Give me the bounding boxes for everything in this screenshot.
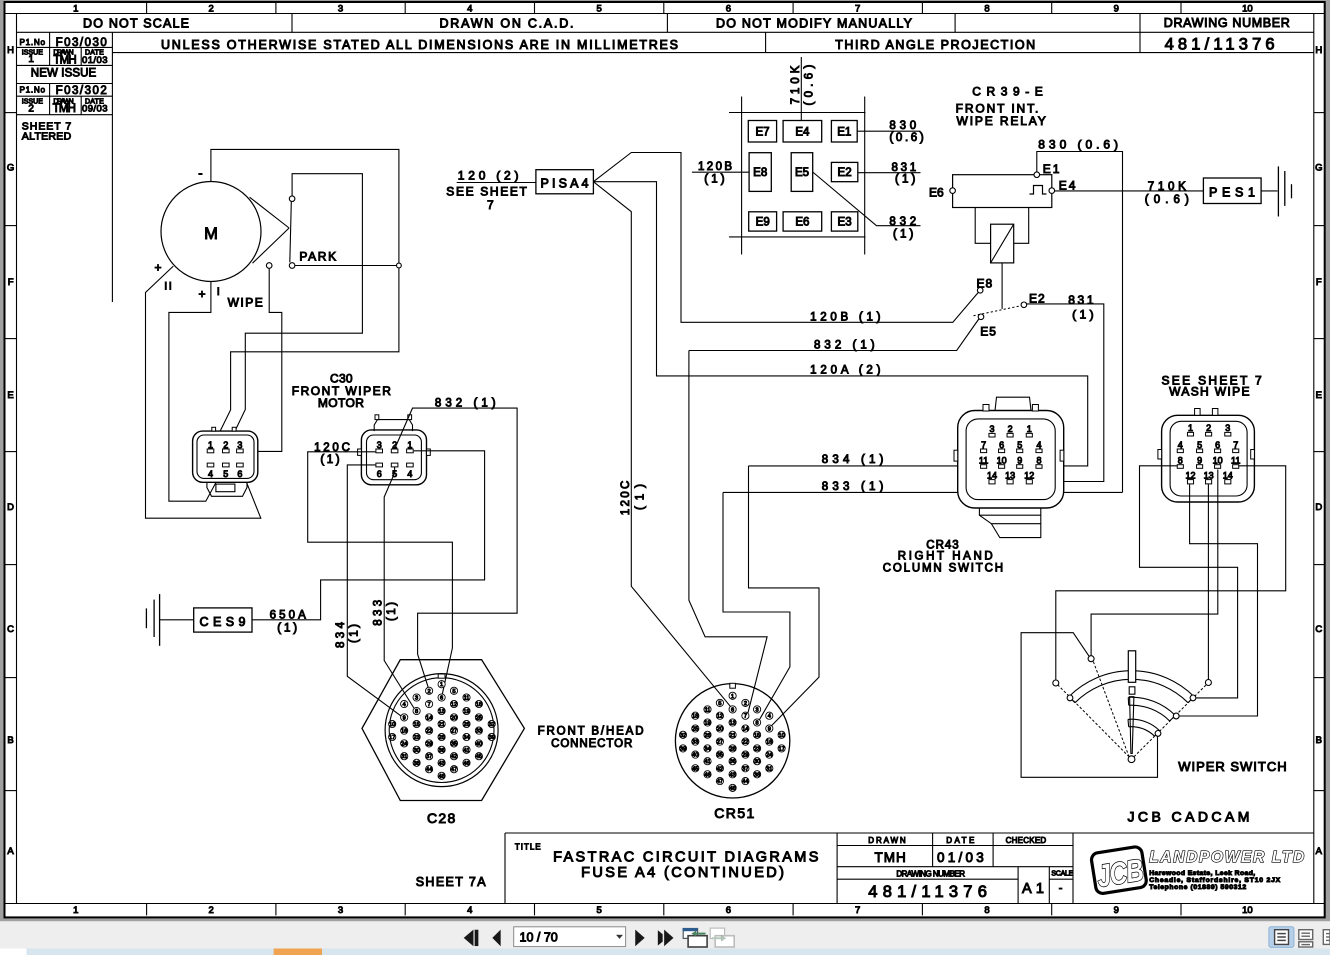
svg-text:1: 1 [73,4,78,15]
svg-text:32: 32 [489,722,495,728]
LANDPOWER LTD logo text [1149,849,1305,866]
svg-text:40: 40 [692,753,698,759]
label FRONT B/HEAD [538,725,644,737]
relay pulse symbol [1030,186,1047,195]
svg-text:10: 10 [1242,4,1253,15]
svg-text:32: 32 [680,733,686,739]
wire 832 from fuse E5 [813,172,921,226]
svg-text:10: 10 [778,733,784,739]
svg-text:36: 36 [729,759,735,765]
svg-text:35: 35 [451,741,457,747]
relay terminal E4 [1049,188,1055,194]
wiper switch middle arc end contact [1173,713,1179,719]
label SEE SHEET 7 [1162,373,1263,387]
toolbar continuous layout icon [1299,930,1313,947]
svg-text:3: 3 [237,440,242,450]
svg-text:E9: E9 [756,217,770,229]
svg-text:16: 16 [766,740,772,746]
label RIGHT HAND [898,550,993,562]
svg-text:33: 33 [692,740,698,746]
svg-text:ALTERED: ALTERED [22,130,72,142]
text 481/11376 title [868,883,987,901]
svg-text:22: 22 [742,740,748,746]
connector CR51 pin field 1-48 [679,692,785,792]
wire 833 C30B pin5 to C28 pin8 [384,467,414,708]
svg-text:6: 6 [1215,440,1220,450]
wire 833/830 bus to CR43 pin13 [723,484,1123,493]
wiper switch inner arc end contact [1155,731,1161,737]
connector CR43 backshell [979,508,1040,538]
wire PISA4 to 120C branch [593,182,730,707]
svg-text:E1: E1 [1043,162,1062,176]
wire park lower contact to junction [295,265,396,267]
label E6 [929,186,944,200]
wire WW pin8 to outer arc contact [1140,466,1238,698]
svg-text:(1): (1) [386,602,398,621]
svg-text:10: 10 [389,722,395,728]
svg-text:3: 3 [377,440,382,450]
svg-text:17: 17 [778,746,784,752]
svg-text:B: B [1316,735,1322,746]
wire 831 E2 to CR43 pin12 [1027,304,1104,482]
relay contact E2 [1021,302,1027,308]
svg-text:E5: E5 [980,325,997,339]
svg-text:11: 11 [979,456,988,466]
svg-text:9: 9 [1114,4,1119,15]
svg-text:10 / 70: 10 / 70 [520,931,558,945]
svg-text:E6: E6 [929,186,944,200]
svg-text:28: 28 [729,746,735,752]
JCB logo [1091,846,1148,894]
connector CR51 keyway [730,683,736,688]
svg-text:9: 9 [1197,456,1202,466]
label 834 (1) vertical [335,621,361,648]
toolbar page combobox [514,927,626,947]
relay coil leads [975,208,1028,244]
svg-text:Telephone (01889) 590312: Telephone (01889) 590312 [1149,884,1246,891]
wire wipe contact to C30A pin3 [244,269,282,452]
wire 834 to CR43 pin11 [749,465,981,467]
svg-text:7: 7 [855,905,860,916]
wire coil to armature [1001,263,1003,309]
wire 832 switch to E5 [689,319,979,351]
label MOTOR (C30) [318,396,364,410]
svg-text:6: 6 [377,469,382,479]
svg-text:DO NOT MODIFY MANUALLY: DO NOT MODIFY MANUALLY [716,17,913,31]
svg-text:(1): (1) [895,174,916,186]
svg-text:7: 7 [487,198,494,212]
label 832 (1) C30 [435,398,496,410]
svg-text:6: 6 [999,440,1004,450]
svg-text:E4: E4 [795,127,810,139]
svg-text:13: 13 [438,709,444,715]
label 710K vertical [790,65,816,106]
svg-text:DO NOT SCALE: DO NOT SCALE [83,17,189,31]
svg-text:DRAWING NUMBER: DRAWING NUMBER [896,870,965,879]
svg-text:12: 12 [717,714,723,720]
svg-text:14: 14 [987,470,997,480]
label COLUMN SWITCH [883,562,1003,574]
svg-text:16: 16 [401,729,407,735]
text 01/03 [937,850,984,865]
svg-text:23: 23 [413,735,419,741]
connector CR43 body [954,397,1064,508]
wiper switch outer arc end contacts [1067,695,1196,701]
wire 710K to fuse E4 [800,57,802,121]
svg-text:3: 3 [415,696,418,702]
wiper switch middle arc band [1128,697,1175,721]
revision block texts [20,37,108,142]
label WASH WIPE [1169,385,1249,399]
fuse E6 [783,212,822,231]
motor minus label [198,166,202,181]
svg-text:(1): (1) [277,623,297,635]
svg-text:48: 48 [438,774,444,780]
label CR43 [926,540,959,552]
svg-text:+: + [198,287,205,301]
wire 120B stub to fuse E8 [692,171,749,173]
connector CR43 pins 1-14 [979,424,1042,484]
svg-text:E2: E2 [1029,291,1046,305]
label JCB CADCAM [1128,808,1250,824]
text TMH [875,850,906,865]
label CONNECTOR [551,738,632,750]
svg-text:SCALE: SCALE [1051,870,1073,877]
svg-text:46: 46 [463,761,469,767]
svg-text:20: 20 [717,727,723,733]
svg-text:6: 6 [731,707,734,713]
svg-text:8: 8 [984,905,989,916]
svg-text:5: 5 [1017,440,1022,450]
label C30 [330,371,353,385]
label + (I) [198,287,205,301]
svg-text:1: 1 [440,682,443,688]
text CHECKED header [1006,836,1047,845]
svg-text:H: H [7,45,14,56]
svg-text:1: 1 [208,440,213,450]
svg-text:37: 37 [426,754,432,760]
svg-text:1: 1 [1027,424,1032,434]
svg-text:1: 1 [731,694,734,700]
label E8 [977,277,994,291]
fuse E9 [749,212,777,231]
label PARK [299,249,336,263]
svg-text:9: 9 [768,727,771,733]
svg-text:G: G [1315,163,1322,174]
wire 833 down to CR51 pin8 [723,492,790,720]
label 650A (1) [270,609,307,634]
connector C28 pin field 1-48 [389,681,496,780]
label 120B (1) switch [810,312,881,324]
svg-text:44: 44 [426,767,432,773]
svg-text:MOTOR: MOTOR [318,396,364,410]
svg-text:E: E [7,390,13,401]
motor M circle [161,182,261,282]
svg-text:E8: E8 [753,167,767,179]
svg-text:8: 8 [984,4,989,15]
svg-text:4: 4 [1036,440,1041,450]
svg-text:11: 11 [705,707,711,713]
svg-text:WASH WIPE: WASH WIPE [1169,385,1249,399]
svg-text:22: 22 [426,729,432,735]
svg-text:2: 2 [744,701,747,707]
svg-text:24: 24 [766,753,772,759]
motor M label [204,225,218,243]
svg-text:COLUMN SWITCH: COLUMN SWITCH [883,562,1003,574]
svg-text:A: A [1316,846,1323,857]
park switch lever [290,202,292,262]
svg-text:43: 43 [438,761,444,767]
fuse E7 [748,121,776,143]
box PISA4 [536,170,594,194]
park switch lower contact [289,263,295,269]
wire park upper contact to C30A pin2 [227,174,363,449]
svg-text:46: 46 [704,772,710,778]
wire PES1 to ground [1261,190,1277,192]
wiper switch inner arc band [1128,719,1160,736]
svg-text:27: 27 [717,740,723,746]
svg-text:WIPE RELAY: WIPE RELAY [957,114,1046,128]
label E2 [1029,291,1046,305]
text DRAWING NUMBER small [896,870,965,879]
svg-text:II: II [164,280,173,292]
svg-text:Harewood Estate, Leek Road,: Harewood Estate, Leek Road, [1149,870,1255,877]
svg-text:42: 42 [717,766,723,772]
node park junction [397,263,402,268]
wiper switch dashed position left [1058,685,1129,757]
svg-text:33: 33 [476,729,482,735]
svg-text:WIPER SWITCH: WIPER SWITCH [1178,759,1286,774]
svg-text:11: 11 [464,696,470,702]
label 120C (1) vertical [620,481,647,516]
svg-text:31: 31 [766,766,772,772]
svg-text:4: 4 [208,469,213,479]
svg-text:1: 1 [73,905,78,916]
svg-text:3: 3 [989,424,994,434]
wiper switch contact right [1205,680,1211,686]
svg-text:13: 13 [1005,470,1015,480]
wiper switch dashed position upper-left [1093,661,1129,757]
svg-text:+: + [154,261,161,275]
svg-text:G: G [7,163,14,174]
svg-text:CR51: CR51 [714,805,755,821]
text UNLESS OTHERWISE STATED [161,38,678,52]
svg-text:24: 24 [401,741,407,747]
svg-text:(1): (1) [1072,307,1094,321]
svg-text:FRONT B/HEAD: FRONT B/HEAD [538,725,644,737]
toolbar background [0,921,1330,955]
svg-text:21: 21 [729,733,735,739]
text drawing number 481/11376 [1165,36,1278,54]
svg-text:4: 4 [467,4,472,15]
svg-text:3: 3 [338,905,343,916]
connector wash-wipe pins 1-14 [1177,423,1240,484]
svg-text:45: 45 [692,766,698,772]
svg-text:M: M [204,225,218,243]
svg-text:4: 4 [467,905,472,916]
svg-text:5: 5 [1197,440,1202,450]
svg-text:2: 2 [28,104,34,115]
text TITLE [515,843,541,852]
wire 830 from fuse E1 [857,130,920,132]
svg-text:44: 44 [742,779,748,785]
relay armature dashed [974,306,1022,316]
svg-text:3: 3 [1225,423,1230,433]
svg-text:15: 15 [413,722,419,728]
box PES1 [1203,178,1261,204]
svg-text:C: C [1315,624,1322,635]
svg-text:THIRD ANGLE PROJECTION: THIRD ANGLE PROJECTION [835,38,1035,52]
fuse E5 [791,153,813,192]
svg-text:4: 4 [1178,440,1183,450]
wire 120 to PISA4 [457,182,536,184]
svg-text:A 1: A 1 [1022,881,1044,897]
svg-text:4: 4 [768,714,771,720]
grid row ticks [5,113,1325,791]
svg-text:13: 13 [1204,470,1214,480]
svg-text:28: 28 [438,735,444,741]
svg-text:6: 6 [440,696,443,702]
svg-text:42: 42 [451,754,457,760]
svg-text:6: 6 [726,905,731,916]
label 833 (1) vertical [373,600,399,626]
svg-text:833: 833 [373,600,385,626]
svg-text:-: - [198,166,202,181]
text scale dash [1059,882,1063,894]
svg-text:(1): (1) [893,229,914,241]
wire motor minus to park junction to C30A pin1 [211,149,399,448]
label SHEET 7A [416,875,487,889]
svg-text:5: 5 [596,4,601,15]
wire 831 from fuse E2 [858,172,921,174]
svg-text:F: F [1316,277,1322,288]
wiper switch lever [1128,651,1135,754]
text FUSE A4 (CONTINUED) [581,865,784,881]
svg-text:3: 3 [338,4,343,15]
text SCALE header [1051,870,1073,877]
wire WW pin13 to right contact [1207,484,1209,679]
ground PES1 [1278,166,1291,216]
svg-text:25: 25 [692,727,698,733]
svg-text:21: 21 [438,722,444,728]
svg-text:45: 45 [476,754,482,760]
label WIPE [228,296,263,310]
wire WW pin12 to middle arc contact [1179,484,1257,716]
wiper switch contact upper-left [1088,656,1094,662]
svg-text:26: 26 [463,722,469,728]
svg-text:48: 48 [729,786,735,792]
svg-text:8: 8 [756,721,759,727]
wire 832 down to CR51 pin7 [689,351,767,713]
svg-text:9: 9 [403,715,406,721]
svg-text:JCB CADCAM: JCB CADCAM [1128,808,1250,824]
svg-text:TITLE: TITLE [515,843,541,852]
svg-text:E5: E5 [795,167,809,179]
svg-text:2: 2 [223,440,228,450]
svg-text:34: 34 [704,746,710,752]
connector CR51 circle [675,684,789,798]
svg-text:830: 830 [889,120,916,132]
svg-text:C28: C28 [427,810,456,826]
svg-text:11: 11 [1231,456,1240,466]
svg-text:B: B [7,735,13,746]
svg-text:2: 2 [1008,424,1013,434]
svg-text:Cheadle, Staffordshire, ST10 2: Cheadle, Staffordshire, ST10 2JX [1149,877,1280,884]
svg-text:481/11376: 481/11376 [868,883,987,901]
fuse E2 [831,162,857,181]
svg-text:10: 10 [1213,456,1223,466]
wire WW pin11 to left contact [1056,466,1286,680]
svg-text:LANDPOWER LTD: LANDPOWER LTD [1149,849,1305,866]
wiper switch outer arc band [1069,671,1194,703]
toolbar next-page button [635,930,644,946]
label CR51 [714,805,755,821]
toolbar two-page layout icon [1323,930,1330,945]
svg-text:29: 29 [426,741,432,747]
wire ground to CES9 [160,619,194,621]
svg-text:38: 38 [413,761,419,767]
motor cam triangle [250,197,290,263]
svg-text:A: A [7,846,14,857]
wiper switch dashed position right [1134,685,1206,757]
wire PISA4 to 120A branch [593,182,1087,466]
svg-text:12: 12 [451,702,457,708]
title block lines [505,833,1314,904]
svg-text:TMH: TMH [53,55,76,67]
svg-text:CONNECTOR: CONNECTOR [551,738,632,750]
label 120A (2) [810,364,881,376]
svg-text:38: 38 [754,772,760,778]
label E4 [1059,179,1078,193]
fuse E8 [749,153,771,192]
wire WW pin10 to upper-left contact [1091,470,1218,656]
relay contact E5 [978,314,984,320]
svg-text:832: 832 [889,216,916,228]
connector C30-A pins 1-6 [207,440,243,479]
fuse E1 [831,121,857,143]
svg-text:120A (2): 120A (2) [810,364,881,376]
svg-text:D: D [1315,502,1322,513]
svg-text:481/11376: 481/11376 [1165,36,1278,54]
ground CES9 [146,594,159,646]
wire 650A CES9 to C30B pin1 [252,451,485,620]
wiper switch contact left [1053,680,1059,686]
svg-text:27: 27 [451,729,457,735]
svg-text:5: 5 [452,689,455,695]
svg-text:47: 47 [451,767,457,773]
text THIRD ANGLE PROJECTION [835,38,1035,52]
wire +II to C30A pin6 [146,266,261,518]
svg-text:14: 14 [1223,470,1233,480]
wire 830 relay E1 to bus [1037,152,1123,493]
svg-text:23: 23 [754,746,760,752]
text DRAWN header [868,836,906,845]
svg-text:JCB: JCB [1094,852,1145,894]
svg-text:1: 1 [407,440,412,450]
connector wash-wipe body [1158,409,1255,503]
svg-text:WIPE: WIPE [228,296,263,310]
wiper switch pivot [1128,756,1135,763]
svg-text:7: 7 [744,714,747,720]
svg-text:831: 831 [1068,293,1094,307]
revision block lines [17,32,113,302]
svg-text:120C: 120C [620,481,632,516]
label SEE SHEET 7 [446,184,527,212]
label CR39-E [972,85,1043,99]
svg-text:5: 5 [223,469,228,479]
svg-text:19: 19 [463,709,469,715]
svg-text:E3: E3 [838,217,852,229]
